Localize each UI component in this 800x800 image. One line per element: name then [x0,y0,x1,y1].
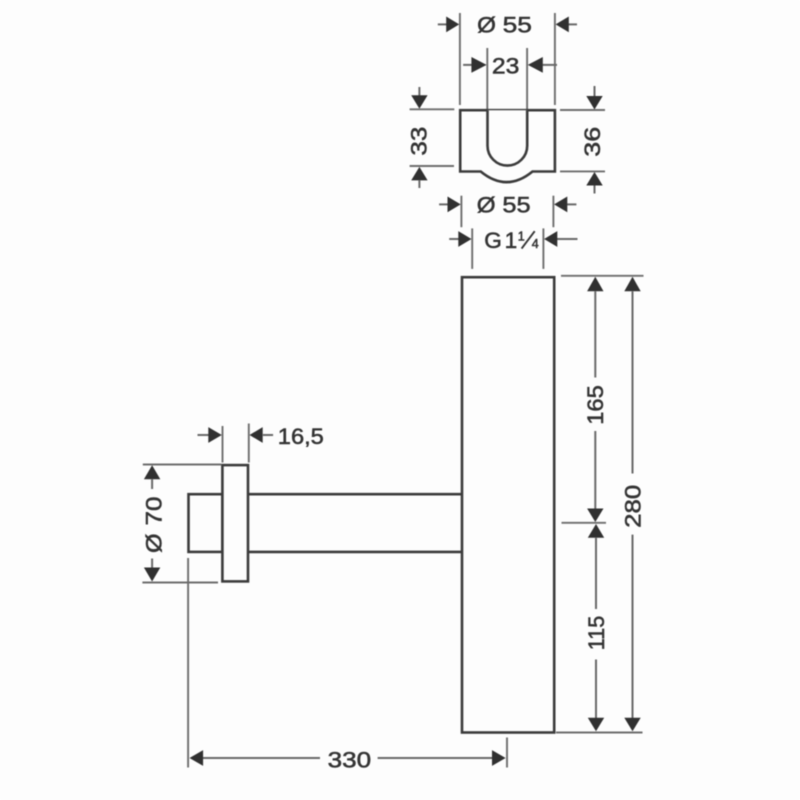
svg-text:16,5: 16,5 [278,424,324,449]
dim 280: line upper segment [632,291,634,473]
dim Ø55 top: right extension line [554,13,556,105]
svg-text:55: 55 [502,193,530,218]
dim 165: line lower segment [594,431,596,509]
dim 36: bottom leader tail [594,186,596,194]
dim 33: bottom leader tail [418,180,420,188]
dim 280: bottom arrowhead (down) [624,718,640,732]
dim 16,5: left extension line [222,426,224,463]
dim 23: left leader tail [463,64,472,66]
dim G1 1/4: right extension line [542,228,544,269]
dim 36: bottom arrowhead (up) [586,172,602,186]
dim 165: top arrowhead (up) [587,277,603,292]
dim G1 1/4: left arrowhead [458,231,471,247]
svg-text:23: 23 [492,54,520,79]
dim 330: left arrowhead [190,750,204,766]
dim Ø55 bottom: right arrowhead [554,197,567,213]
dim 115: top arrowhead (up) [588,524,604,538]
dim 16,5: right extension line [248,424,250,463]
dim Ø70: bottom arrowhead (down) [144,568,160,582]
dim 23: left arrowhead [471,57,486,73]
dim 115: line upper segment [595,538,597,609]
dim 115: line lower segment [595,660,597,719]
right dims: middle junction tick [562,522,607,524]
dim Ø55 top: left arrowhead [446,17,459,33]
svg-text:280: 280 [620,485,645,528]
dim 33: bottom extension tick [410,165,454,167]
dim Ø70: bottom extension line [142,582,218,584]
pipe end cap [189,494,223,552]
svg-text:165: 165 [583,385,608,425]
dim Ø70: top arrowhead (up) [144,465,160,479]
dim G1 1/4: fraction slash [522,231,535,248]
dim Ø55 top: left leader tail [438,23,447,25]
dim 23: right leader tail [543,64,557,66]
dim 36: top extension tick [560,109,605,111]
dim Ø55 top: right arrowhead [556,17,569,33]
dim 36: top leader tail [594,86,596,97]
svg-text:G: G [484,228,502,253]
dim 23: left extension line [486,48,488,109]
svg-text:4: 4 [532,237,539,251]
dim 33: bottom arrowhead (up) [411,167,427,181]
dim 33: top extension tick [410,108,455,110]
svg-text:Ø: Ø [477,13,496,38]
dim Ø55 bottom: left extension line [460,196,462,228]
dim Ø70: bottom leader tail [151,559,153,568]
dim Ø55 bottom: left arrowhead [448,197,461,213]
dim Ø55 bottom: right leader tail [567,203,576,205]
svg-text:55: 55 [503,13,532,38]
dim 16,5: left arrowhead [208,427,222,443]
dim 23: right extension line [526,48,528,109]
dim Ø55 top: left extension line [459,13,461,105]
siphon body (tank) [462,277,554,732]
dim G1 1/4: right arrowhead [544,231,557,247]
dim 23: right arrowhead [528,57,543,73]
inlet pipe top line [248,493,461,496]
dim Ø55 top: right leader tail [569,23,578,25]
inlet pipe bottom line [248,551,461,554]
dim G1 1/4: left extension line [471,228,473,269]
dim 280: top arrowhead (up) [624,277,640,292]
dim Ø55 bottom: left leader tail [439,203,447,205]
right dims: bottom extension line [556,732,643,734]
svg-text:70: 70 [141,497,166,526]
dim 16,5: left leader tail [198,434,209,436]
svg-text:330: 330 [328,747,372,772]
dim G1 1/4: right leader tail [556,238,577,240]
wall bracket inner U cutout [488,110,528,165]
dim 165: line upper segment [594,291,596,377]
svg-text:36: 36 [580,127,605,157]
dim 330: right arrowhead [492,750,506,766]
wall flange [222,465,248,581]
svg-text:115: 115 [584,616,609,651]
dim 33: top arrowhead (down) [411,95,427,109]
svg-text:1: 1 [505,228,518,253]
svg-text:Ø: Ø [141,533,166,553]
dim Ø55 bottom: right extension line [552,196,554,228]
dim 16,5: right leader tail [263,434,273,436]
svg-text:Ø: Ø [477,193,496,218]
wall bracket outline [460,110,555,182]
dim 115: bottom arrowhead (down) [588,718,604,732]
dim 280: line lower segment [632,535,634,719]
dim 36: bottom extension tick [560,170,605,172]
dim 16,5: right arrowhead [250,427,263,443]
dim 165: bottom arrowhead (down) [587,509,603,523]
dim 330: right extension line [506,738,508,768]
svg-text:1: 1 [518,230,525,244]
svg-text:33: 33 [406,127,431,156]
dim Ø70: top extension line [143,464,221,466]
dim 330: dimension line left segment [203,757,320,759]
right dims: top extension line [561,275,644,277]
dim 330: dimension line right segment [378,757,493,759]
dim 330: left extension line [187,558,189,768]
dim Ø70: top leader tail [151,479,153,489]
dim 33: top leader tail [418,87,420,96]
dim G1 1/4: left leader tail [449,238,458,240]
dim 36: top arrowhead (down) [586,96,602,110]
